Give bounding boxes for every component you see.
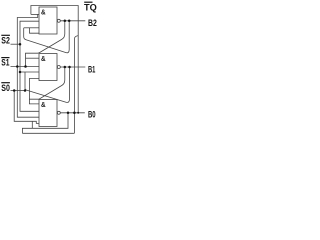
svg-text:S1: S1 [1,57,9,68]
svg-text:S2: S2 [1,35,10,46]
svg-text:&: & [41,10,46,17]
svg-text:&: & [41,56,46,63]
svg-text:S0: S0 [1,82,10,93]
svg-text:&: & [41,102,46,109]
svg-text:B2: B2 [88,17,97,28]
svg-text:B1: B1 [88,64,95,75]
svg-text:B0: B0 [88,109,96,120]
svg-text:TQ: TQ [84,2,97,13]
